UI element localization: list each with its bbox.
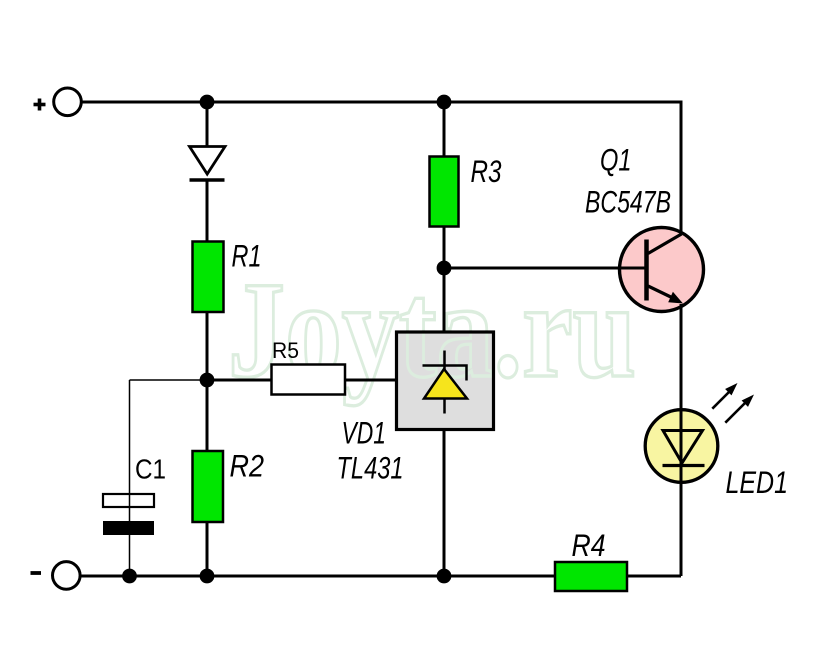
wire top rail to R3 [443,102,446,157]
node C [437,261,452,276]
wire node B to R2 [206,380,209,451]
wire node A to diode [206,102,209,147]
node R2 bottom [200,569,215,584]
wire node B to R5 [207,379,272,382]
wire C1 branch vertical (thin) [129,380,131,576]
svg-text:C1: C1 [135,454,166,485]
wire right rail upper [680,101,683,234]
svg-text:TL431: TL431 [337,450,404,486]
wire diode to R1 [206,180,209,242]
capacitor C1 [103,494,154,535]
resistor R4 [555,562,627,591]
node top R3 [437,95,452,110]
LED1 arrow 1 [712,383,737,409]
node B [200,373,215,388]
U1 internal cathode line [443,351,446,414]
transistor Q1 BC547B [617,228,704,312]
svg-text:R3: R3 [471,153,502,189]
U1 internal triangle [424,369,467,399]
svg-text:R2: R2 [230,448,265,484]
wire R1 to node B [206,312,209,380]
LED1 arrow 2 [725,395,754,423]
resistor R1 [193,242,224,313]
wire base: node C to Q1 [444,267,647,270]
IC U1 body fill (gray, under watermark) [397,332,494,430]
svg-text:R5: R5 [272,338,299,363]
LED1 cathode bar [663,464,705,467]
node A [200,95,215,110]
svg-text:VD1: VD1 [342,415,387,451]
U1 internal reference bar [423,366,467,381]
LED1 body [645,410,718,483]
node C1 bottom [122,569,137,584]
wire right rail lower [680,304,683,576]
terminal plus [34,88,82,116]
IC U1 TL431 border [397,332,494,430]
wire U1 bottom to bottom rail [443,430,446,577]
svg-text:R1: R1 [232,238,262,274]
wire bottom rail [81,575,682,578]
svg-text:R4: R4 [572,527,606,563]
svg-text:BC547B: BC547B [585,184,671,220]
diode D1 [190,147,226,181]
node U1 bottom [437,569,452,584]
resistor R3 [430,157,459,227]
wire top rail [81,101,681,104]
wire R2 to bottom rail [206,522,209,576]
wire node C to U1 top [443,268,446,332]
wire R5 to U1 [345,379,397,382]
terminal minus [31,562,81,590]
LED1 triangle [663,431,703,464]
wire C1 branch horizontal (thin) [130,379,208,381]
svg-text:LED1: LED1 [726,464,789,500]
wire R3 to node C [443,226,446,268]
resistor R5 [272,365,346,395]
svg-text:Q1: Q1 [600,142,632,178]
resistor R2 [193,451,224,522]
